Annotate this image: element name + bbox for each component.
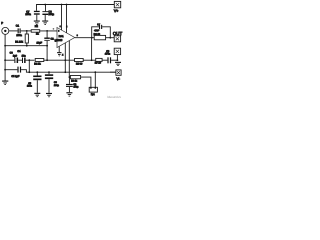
capacitor C1 [16, 25, 23, 38]
svg-text:R5 39: R5 39 [76, 62, 83, 65]
capacitor C9 [105, 50, 111, 63]
ground pin2 [57, 52, 61, 56]
resistor R2 [31, 25, 40, 35]
node C2 mid-row junction [46, 59, 48, 61]
resistor R6 [94, 33, 106, 40]
svg-text:100µ: 100µ [48, 13, 54, 16]
wire speaker right pin [94, 72, 96, 87]
svg-text:1k: 1k [36, 33, 39, 36]
ground under C11 [66, 92, 72, 96]
wire pin2 stub [58, 46, 60, 52]
node pin4 mid-row junction [64, 59, 66, 61]
node bus mid-row junction [4, 59, 6, 61]
wire zobel loop [92, 27, 111, 38]
svg-text:R1 10k: R1 10k [15, 40, 23, 43]
wire ground row from jack [5, 45, 47, 47]
node output zobel junction [91, 37, 93, 39]
svg-text:6: 6 [60, 25, 61, 28]
svg-text:P: P [1, 21, 3, 25]
node speaker junction [94, 71, 96, 73]
svg-text:C5 1µF: C5 1µF [11, 75, 19, 78]
wire R6 to OUT [106, 37, 115, 39]
terminal V- [116, 70, 121, 81]
wire output to divider [91, 38, 93, 61]
node pin4 lower junction [64, 71, 66, 73]
wire C9 to gnd terminal [111, 59, 117, 61]
svg-text:R6 10: R6 10 [94, 33, 101, 36]
wire R7 to C9 [102, 59, 108, 61]
connector P (input jack) [1, 21, 9, 34]
svg-text:V-: V- [117, 77, 121, 81]
wire jack to C1 [9, 30, 18, 32]
node output-divider junction [91, 59, 93, 61]
svg-text:C4: C4 [17, 50, 21, 53]
node x29 lower junction [28, 71, 30, 73]
node rail-pin6 junction [61, 4, 63, 6]
wire lower row step [21, 70, 116, 73]
wire pin6 supply [61, 5, 63, 31]
svg-text:100n: 100n [27, 85, 33, 88]
svg-text:470µ: 470µ [73, 86, 79, 89]
wire pin5 down [68, 41, 70, 77]
resistor R1 [15, 31, 28, 46]
node R1 ground junction [26, 45, 28, 47]
svg-text:ldsound.ru: ldsound.ru [107, 95, 121, 99]
svg-text:Гр1: Гр1 [91, 93, 95, 96]
capacitor C8 [42, 5, 54, 21]
svg-text:C6: C6 [54, 81, 58, 84]
capacitor C10 [94, 23, 102, 32]
wire pin1 supply [66, 5, 68, 33]
capacitor C5b [27, 72, 42, 93]
capacitor C7 [25, 10, 39, 20]
node input-R1 junction [26, 30, 28, 32]
svg-text:1,7: 1,7 [97, 23, 100, 26]
node jack ground junction [4, 45, 6, 47]
svg-text:OUT: OUT [113, 31, 123, 36]
svg-text:1µ0: 1µ0 [13, 55, 18, 58]
node rail-pin1 junction [66, 4, 68, 6]
wire op-amp output [75, 37, 95, 39]
wire R4 to R5 [44, 59, 75, 61]
svg-text:R7 10: R7 10 [95, 62, 102, 65]
svg-text:DA1: DA1 [59, 35, 64, 38]
resistor R7 [95, 58, 102, 64]
svg-text:100µ: 100µ [54, 84, 60, 87]
ground under C6 [46, 93, 52, 97]
node gnd terminal junction [117, 59, 119, 61]
capacitor C5 [11, 67, 21, 78]
wire R2 to op-amp [40, 30, 57, 32]
svg-text:100n: 100n [16, 34, 22, 37]
svg-text:V+: V+ [114, 9, 119, 13]
capacitor C11 [66, 77, 79, 92]
node C6 junction [48, 71, 50, 73]
svg-text:2: 2 [55, 39, 56, 42]
wire R8 to speaker [81, 77, 91, 87]
ground under C8 [42, 21, 48, 25]
wire V+ rail [37, 5, 115, 11]
svg-text:10µF: 10µF [37, 42, 43, 45]
op-amp DA1 [55, 25, 78, 48]
wire V- row into terminal [110, 71, 116, 73]
capacitor C6 [45, 72, 60, 93]
svg-text:R4 1k: R4 1k [34, 63, 41, 66]
ground under C5b [34, 93, 40, 97]
resistor R5 [75, 59, 84, 66]
wire left bus [4, 34, 6, 80]
ground left bus [2, 81, 8, 86]
ground under C7 [34, 21, 40, 25]
wire C3 to C4 [18, 59, 22, 61]
terminal GND output [114, 48, 120, 54]
wire lower row left [5, 69, 17, 71]
wire R5 to R6b [83, 59, 95, 61]
capacitor C4 [17, 50, 26, 63]
wire C4 to R4 [26, 59, 35, 61]
node A (R2 / C2 / +input) [46, 30, 48, 32]
terminal OUT [113, 31, 123, 42]
node rail-C8 junction [44, 4, 46, 6]
terminal V+ [114, 1, 121, 13]
svg-text:10n: 10n [22, 55, 27, 58]
resistor R4 [34, 59, 44, 66]
svg-text:5: 5 [77, 34, 78, 37]
svg-text:R8 1k: R8 1k [71, 79, 78, 82]
svg-text:4: 4 [62, 53, 64, 56]
node zobel right junction [109, 37, 111, 39]
wire up to terminal [116, 55, 118, 61]
wire mid row left [5, 59, 14, 61]
wire x29 down [28, 60, 30, 72]
node mid-row x29 junction [28, 59, 30, 61]
svg-text:C1: C1 [16, 25, 20, 28]
capacitor C2 [37, 31, 55, 60]
svg-text:4,7µF: 4,7µF [94, 29, 100, 32]
svg-text:470n: 470n [105, 52, 111, 55]
+ input marker [53, 28, 55, 30]
node bus lower-row junction [4, 69, 6, 71]
node C2 ground row junction [46, 45, 48, 47]
ground right [115, 62, 121, 66]
svg-text:3: 3 [58, 29, 59, 32]
resistor R8 [69, 76, 81, 83]
wire pin4 down [64, 43, 66, 72]
svg-text:R2: R2 [35, 25, 39, 28]
svg-text:100n: 100n [25, 13, 31, 16]
wire C1 to R2 [21, 30, 32, 32]
capacitor C3 [10, 52, 19, 63]
node C5b junction [36, 71, 38, 73]
speaker Gr1 [89, 87, 97, 96]
